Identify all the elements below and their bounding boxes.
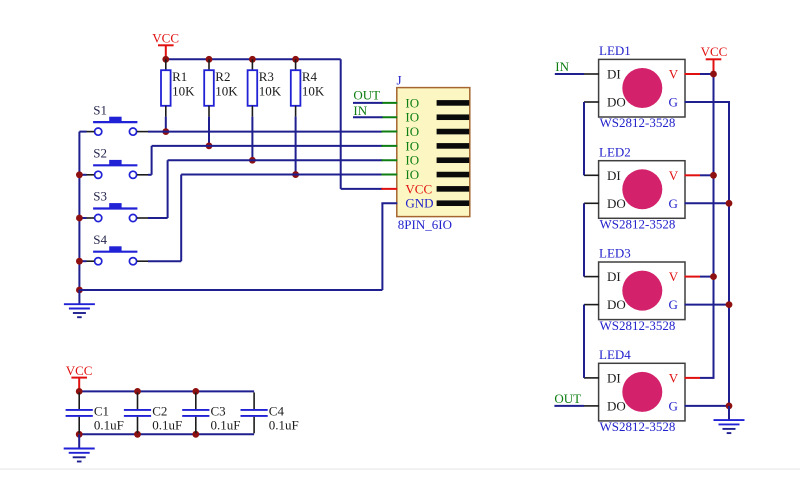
wire G rail: [728, 102, 730, 406]
LED3 pin DO stub: [584, 304, 599, 306]
svg-text:10K: 10K: [259, 83, 282, 98]
ground GND caps: [64, 434, 95, 461]
svg-text:R2: R2: [215, 69, 230, 84]
node bottom rail junction C3: [192, 431, 199, 438]
svg-text:VCC: VCC: [701, 44, 728, 59]
node top rail junction C3: [192, 388, 199, 395]
LED1 pin V stub: [685, 73, 701, 75]
svg-text:DO: DO: [607, 297, 626, 312]
node VCC junction LED3 V: [710, 273, 717, 280]
svg-text:LED1: LED1: [599, 43, 631, 58]
svg-text:V: V: [669, 269, 679, 284]
svg-text:R4: R4: [302, 69, 318, 84]
wire LED4 V to rail: [700, 377, 715, 379]
power port VCC: [152, 30, 179, 59]
LED3 pin DI stub: [584, 276, 599, 278]
wire S3 to connector pin 5: [148, 160, 382, 218]
wire S1 left stub: [79, 131, 86, 133]
wire S1 to connector pin 3: [148, 131, 382, 133]
svg-text:LED4: LED4: [599, 347, 631, 362]
svg-text:DI: DI: [607, 370, 621, 385]
connector J pin 1 stub (IO): [381, 102, 397, 104]
wire R4 bottom to row: [295, 117, 297, 175]
svg-text:DO: DO: [607, 398, 626, 413]
wire LED2 DO to LED3 DI: [583, 203, 585, 276]
LED2 pin DI stub: [584, 174, 599, 176]
node left rail junction S3: [76, 215, 83, 222]
node VCC junction at R1: [162, 56, 169, 63]
svg-text:GND: GND: [405, 196, 433, 211]
wire left rail (switch commons): [78, 132, 80, 290]
connector J pin 7 stub (VCC): [381, 188, 397, 190]
connector J pin 1 pad bar: [437, 100, 470, 106]
wire LED1 G to rail: [685, 101, 731, 103]
LED1 pin DI stub: [584, 73, 599, 75]
node VCC junction LED1 V: [710, 71, 717, 78]
node bottom-left junction: [76, 287, 83, 294]
connector J pin 4 stub (IO): [381, 145, 397, 147]
svg-text:R1: R1: [172, 69, 187, 84]
LED4 pin V stub: [685, 377, 701, 379]
node left rail junction S4: [76, 258, 83, 265]
svg-text:IO: IO: [405, 95, 419, 110]
connector J pin 8 stub (GND): [381, 202, 397, 204]
node G junction LED3: [726, 301, 733, 308]
svg-text:C4: C4: [269, 403, 285, 418]
connector J pin 6 pad bar: [437, 172, 470, 178]
wire S4 to connector pin 6: [148, 175, 382, 262]
ground GND right: [714, 406, 745, 433]
wire S2 left stub: [79, 174, 86, 176]
switch S2: [86, 146, 148, 179]
svg-text:0.1uF: 0.1uF: [94, 417, 124, 432]
svg-text:VCC: VCC: [405, 181, 432, 196]
wire IN to LED1 DI: [555, 73, 584, 75]
LED4 pin DI stub: [584, 377, 599, 379]
wire S3 left stub: [79, 217, 86, 219]
svg-text:IO: IO: [405, 167, 419, 182]
svg-text:DI: DI: [607, 168, 621, 183]
wire LED4 G to rail: [685, 405, 731, 407]
svg-text:WS2812-3528: WS2812-3528: [600, 115, 676, 130]
svg-text:S4: S4: [93, 232, 107, 247]
svg-text:OUT: OUT: [554, 391, 581, 406]
svg-text:LED2: LED2: [599, 144, 631, 159]
svg-text:IN: IN: [555, 59, 569, 74]
node junction R4/S4 row: [292, 171, 299, 178]
svg-text:V: V: [669, 370, 679, 385]
LED1 pin DO stub: [584, 101, 599, 103]
capacitor C3: [182, 392, 240, 433]
LED2 pin V stub: [685, 174, 701, 176]
wire V rail: [713, 74, 715, 378]
node G junction LED4: [726, 403, 733, 410]
svg-text:G: G: [669, 196, 678, 211]
node VCC junction at R3: [249, 56, 256, 63]
svg-text:DI: DI: [607, 67, 621, 82]
switch S1: [86, 102, 148, 135]
node VCC junction at R2: [206, 56, 213, 63]
node G junction LED2: [726, 200, 733, 207]
svg-text:DO: DO: [607, 196, 626, 211]
resistor R2: [204, 59, 238, 116]
LED module LED3 body WS2812-3528: [599, 262, 685, 320]
svg-text:OUT: OUT: [353, 88, 380, 103]
wire VCC top rail: [166, 59, 383, 189]
wire LED3 G to rail: [685, 304, 731, 306]
LED4 pin DO stub: [584, 405, 599, 407]
wire R2 bottom to row: [208, 117, 210, 146]
svg-text:S2: S2: [93, 146, 107, 161]
node junction R3/S3 row: [249, 157, 256, 164]
svg-text:WS2812-3528: WS2812-3528: [600, 318, 676, 333]
LED3 pin V stub: [685, 276, 701, 278]
connector J pin 2 pad bar: [437, 114, 470, 120]
svg-text:V: V: [669, 168, 679, 183]
LED module LED2 body WS2812-3528: [599, 161, 685, 219]
svg-text:S1: S1: [93, 102, 107, 117]
wire IN to pin 2: [353, 116, 382, 118]
svg-text:IN: IN: [353, 103, 367, 118]
connector J pin 5 pad bar: [437, 157, 470, 163]
svg-text:IO: IO: [405, 138, 419, 153]
svg-text:DO: DO: [607, 95, 626, 110]
ground GND left: [64, 290, 95, 317]
svg-text:IO: IO: [405, 110, 419, 125]
connector J pin 3 stub (IO): [381, 131, 397, 133]
svg-text:VCC: VCC: [152, 30, 179, 45]
node junction R2/S2 row: [206, 142, 213, 149]
svg-text:G: G: [669, 95, 678, 110]
wire R1 bottom to row: [165, 117, 167, 132]
svg-text:J: J: [397, 73, 402, 88]
resistor R1: [161, 59, 195, 116]
connector J pin 3 pad bar: [437, 129, 470, 135]
svg-text:0.1uF: 0.1uF: [269, 417, 299, 432]
capacitor C1: [66, 392, 124, 433]
svg-text:C3: C3: [211, 403, 226, 418]
svg-text:IO: IO: [405, 153, 419, 168]
svg-text:C2: C2: [152, 403, 167, 418]
power port VCC: [66, 363, 93, 392]
connector J pin 8 pad bar: [437, 200, 470, 206]
connector J pin 2 stub (IO): [381, 116, 397, 118]
wire OUT from LED4 DO: [554, 405, 584, 407]
node bottom rail junction C2: [134, 431, 141, 438]
switch S3: [86, 189, 148, 222]
svg-text:10K: 10K: [302, 83, 325, 98]
svg-text:VCC: VCC: [66, 363, 93, 378]
svg-text:10K: 10K: [215, 83, 238, 98]
wire LED1 DO to LED2 DI: [583, 102, 585, 175]
node bottom rail junction C1: [76, 431, 83, 438]
svg-text:IO: IO: [405, 124, 419, 139]
svg-text:8PIN_6IO: 8PIN_6IO: [398, 217, 452, 232]
svg-text:R3: R3: [259, 69, 274, 84]
svg-text:V: V: [669, 67, 679, 82]
capacitor C2: [124, 392, 182, 433]
connector J pin 5 stub (IO): [381, 159, 397, 161]
bottom page divider line: [0, 468, 800, 469]
svg-text:G: G: [669, 398, 678, 413]
wire LED2 V to rail: [700, 174, 715, 176]
wire S4 left stub: [79, 260, 86, 262]
node top rail junction C1: [76, 388, 83, 395]
wire LED2 G to rail: [685, 202, 731, 204]
LED module LED1 body WS2812-3528: [599, 59, 685, 117]
node top rail junction C2: [134, 388, 141, 395]
wire LED3 V to rail: [700, 276, 715, 278]
capacitor C4: [241, 392, 299, 433]
svg-text:WS2812-3528: WS2812-3528: [600, 217, 676, 232]
svg-text:C1: C1: [94, 403, 109, 418]
LED2 pin DO stub: [584, 202, 599, 204]
connector J pin 4 pad bar: [437, 143, 470, 149]
resistor R3: [248, 59, 282, 116]
resistor R4: [291, 59, 325, 116]
node left rail junction S2: [76, 171, 83, 178]
node junction R1/S1 row: [162, 128, 169, 135]
connector J body 8PIN_6IO: [397, 88, 470, 217]
power port VCC: [701, 44, 728, 74]
wire LED3 DO to LED4 DI: [583, 305, 585, 378]
wire LED1 V to rail: [700, 73, 715, 75]
svg-text:0.1uF: 0.1uF: [152, 417, 182, 432]
wire OUT to pin 1: [353, 102, 382, 104]
wire S2 to connector pin 4: [148, 146, 382, 175]
connector J pin 7 pad bar: [437, 186, 470, 192]
svg-text:G: G: [669, 297, 678, 312]
node VCC junction at R4: [292, 56, 299, 63]
connector J pin 6 stub (IO): [381, 174, 397, 176]
svg-text:LED3: LED3: [599, 246, 631, 261]
svg-text:10K: 10K: [172, 83, 195, 98]
svg-text:WS2812-3528: WS2812-3528: [600, 419, 676, 434]
wire caps top rail: [79, 390, 254, 392]
node VCC junction LED2 V: [710, 172, 717, 179]
svg-text:0.1uF: 0.1uF: [211, 417, 241, 432]
switch S4: [86, 232, 148, 265]
wire GND bottom run to connector pin 8: [79, 203, 382, 290]
svg-text:DI: DI: [607, 269, 621, 284]
wire caps bottom rail: [79, 433, 254, 435]
LED module LED4 body WS2812-3528: [599, 363, 685, 421]
wire R3 bottom to row: [251, 117, 253, 161]
svg-text:S3: S3: [93, 189, 107, 204]
